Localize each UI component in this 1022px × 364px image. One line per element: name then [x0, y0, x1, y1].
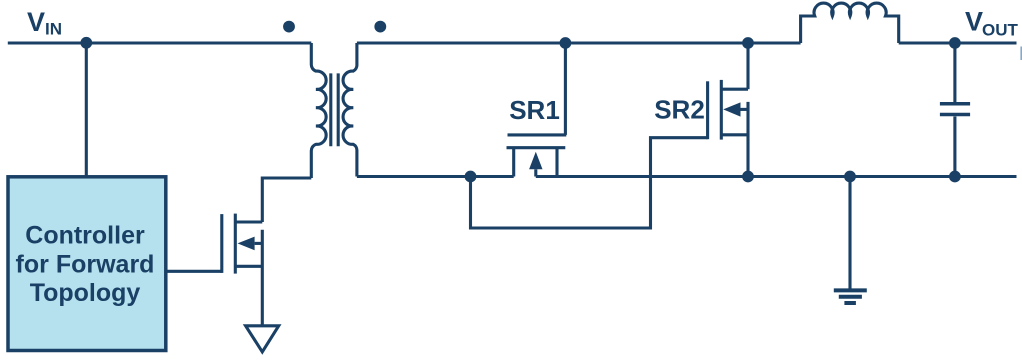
wire to output ground — [848, 177, 851, 290]
transistor Q1 source line — [261, 230, 264, 325]
transistor SR2 drain stub — [721, 88, 748, 91]
svg-text:V: V — [27, 7, 45, 37]
svg-text:SR1: SR1 — [509, 95, 560, 125]
svg-text:for Forward: for Forward — [16, 250, 155, 278]
node VOUT junction dot — [949, 37, 961, 49]
controller U1 box — [8, 177, 166, 351]
transistor SR1 source stub — [555, 148, 558, 177]
wire VOUT rail — [899, 41, 1017, 44]
svg-text:Topology: Topology — [30, 279, 141, 307]
wire bottom rail right — [536, 175, 1017, 178]
transistor SR2 body arrow — [723, 102, 748, 116]
capacitor C1 top lead — [953, 43, 956, 102]
transistor Q1 source stub — [235, 265, 262, 268]
transformer T1 primary winding — [311, 43, 326, 178]
svg-text:SR2: SR2 — [654, 95, 705, 125]
wire Q1 drain to transformer — [262, 178, 311, 222]
capacitor C1 bottom lead — [953, 117, 956, 177]
transistor SR2 gate bar — [706, 81, 709, 139]
wire controller gate lead — [166, 270, 222, 273]
wire SR2 gate loop — [471, 138, 708, 228]
transformer T1 core — [331, 73, 338, 146]
node VIN junction dot — [80, 37, 92, 49]
transistor Q1 gate bar — [220, 214, 223, 273]
wire SR2 drain lead — [746, 43, 749, 89]
node output ground junction dot — [844, 171, 856, 183]
transformer T1 phase dot primary — [283, 21, 295, 33]
svg-text:Controller: Controller — [25, 222, 145, 250]
node VIN label — [27, 7, 62, 39]
node VOUT label — [965, 7, 1019, 40]
transistor SR2 source line — [746, 102, 749, 177]
node SR2 source junction dot — [742, 171, 754, 183]
wire SR1 gate lead — [564, 43, 567, 135]
node SR1 gate junction dot — [560, 37, 572, 49]
wire VIN top rail — [8, 41, 312, 44]
transistor SR1 gate bar — [508, 133, 567, 136]
svg-text:OUT: OUT — [982, 21, 1019, 40]
transistor SR2 source stub — [721, 133, 748, 136]
transistor SR1 body arrow — [529, 152, 542, 177]
transistor Q1 body arrow — [238, 237, 263, 251]
transistor SR2 channel bar — [720, 80, 723, 140]
ground earth symbol — [834, 290, 867, 303]
transistor Q1 channel bar — [234, 214, 237, 274]
wire fragment at right edge — [1020, 47, 1022, 61]
transformer T1 secondary winding — [343, 43, 357, 177]
transformer T1 phase dot secondary — [374, 21, 386, 33]
transistor SR1 channel bar — [507, 146, 566, 149]
controller U1 label — [16, 222, 155, 308]
svg-text:V: V — [965, 7, 983, 37]
node SR2 gate tap junction dot — [465, 171, 477, 183]
node C1 bottom junction dot — [949, 171, 961, 183]
wire secondary top rail — [357, 41, 801, 44]
node SR2 drain junction dot — [742, 37, 754, 49]
wire secondary bottom rail left — [357, 175, 514, 178]
transistor Q1 drain stub — [235, 220, 262, 223]
capacitor C1 plates — [940, 104, 970, 115]
wire VIN to controller — [85, 43, 88, 177]
inductor L1 — [801, 3, 899, 43]
svg-text:IN: IN — [45, 20, 62, 39]
transistor SR1 drain stub — [512, 148, 515, 177]
ground chassis arrow — [246, 326, 279, 352]
